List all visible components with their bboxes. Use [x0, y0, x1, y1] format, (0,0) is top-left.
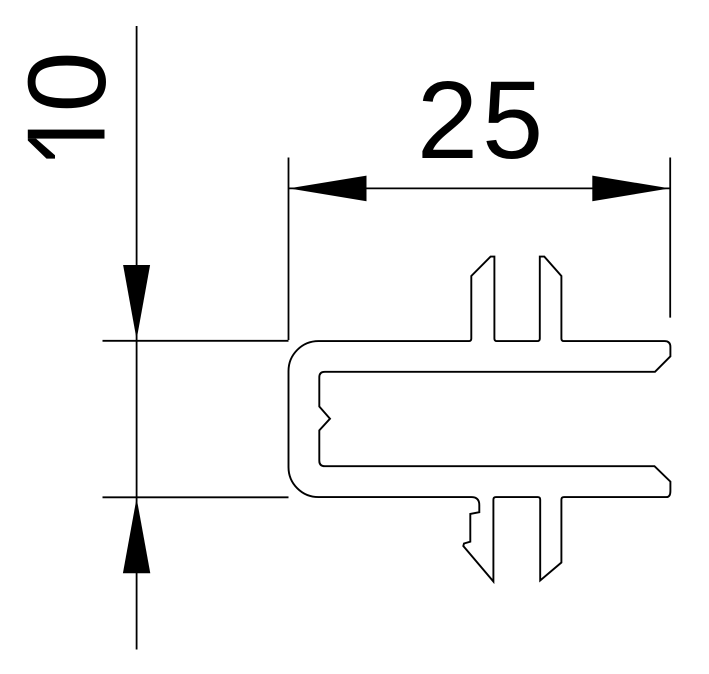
- right arrowhead: [592, 176, 670, 202]
- up arrowhead: [123, 498, 150, 573]
- svg-text:0: 0: [6, 51, 129, 112]
- top extension line of "10": [103, 340, 289, 342]
- horizontal dimension line for "25": [289, 187, 670, 189]
- vertical dimension line for "10": [136, 26, 138, 650]
- dimension text 10 (rotated): digit 1 drawn as bar + flag: [28, 130, 105, 139]
- right extension line of "25": [669, 158, 671, 318]
- left extension line of "25": [288, 158, 290, 341]
- down arrowhead: [123, 265, 150, 340]
- profile outline of aluminium extrusion cross-section: [289, 257, 671, 582]
- bottom extension line of "10": [103, 496, 289, 498]
- left arrowhead: [289, 176, 367, 202]
- svg-text:25: 25: [417, 59, 547, 182]
